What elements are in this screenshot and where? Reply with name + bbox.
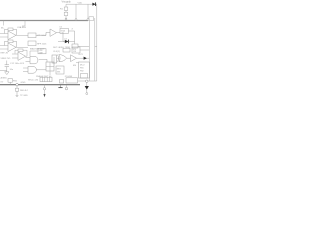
and gate G2 — [28, 66, 36, 73]
wire BR down — [86, 82, 88, 86]
wire cap to gnd — [6, 67, 8, 72]
connector J1 on rail right — [89, 17, 94, 21]
terminal block TB1 — [40, 77, 52, 81]
wire top distribution — [66, 3, 97, 5]
svg-text:R66 4k7: R66 4k7 — [20, 90, 29, 92]
sub box U6 — [81, 74, 88, 79]
wire G3 input — [57, 57, 59, 59]
svg-text:PB1: PB1 — [80, 67, 84, 69]
feedback wire U4 — [15, 50, 27, 56]
ground GND3 stem — [60, 85, 62, 87]
svg-text:REG: REG — [57, 68, 62, 70]
node circle below rail — [65, 87, 68, 90]
node stem below rail — [66, 85, 68, 87]
svg-text:3V3: 3V3 — [57, 71, 60, 73]
wire cap stem — [6, 61, 8, 65]
svg-text:HPF 2k26: HPF 2k26 — [37, 43, 47, 45]
block DIV — [72, 47, 80, 53]
wire arrow to bus — [87, 57, 89, 59]
terminator circle BR — [86, 93, 88, 95]
IC U6 — [79, 62, 90, 78]
mixer M1 — [46, 62, 54, 71]
op-amp U4 — [18, 52, 26, 60]
svg-text:U5: U5 — [60, 26, 62, 28]
block latch L1 — [52, 55, 57, 63]
wire input U2 non-inverting — [0, 48, 8, 50]
wire to diode D2 — [58, 41, 65, 43]
svg-text:C12 100n 6V3: C12 100n 6V3 — [10, 63, 25, 65]
wire A2 to bus — [78, 45, 89, 47]
arrow head signal — [84, 57, 87, 60]
wire U1 out — [16, 34, 28, 36]
wire drop B — [87, 4, 89, 18]
wire U4 inputs — [12, 53, 18, 55]
wire G1 out — [39, 59, 47, 62]
ground GND1 — [5, 72, 9, 75]
svg-text:REF_IN: REF_IN — [1, 53, 9, 55]
svg-text:EN: EN — [73, 65, 76, 67]
svg-text:16M: 16M — [39, 52, 43, 54]
wire to gnd arrow — [44, 90, 46, 94]
svg-text:OUT1: OUT1 — [78, 54, 83, 56]
wire G3 out — [67, 57, 71, 59]
wire right edge from diode — [96, 4, 98, 81]
svg-text:0V: 0V — [1, 82, 4, 84]
resistor R2 — [64, 12, 68, 15]
node circle B on rail — [87, 19, 89, 21]
wire input U2 inverting — [0, 45, 8, 47]
filter block F2 — [28, 41, 36, 46]
wire stub left — [0, 70, 7, 72]
wire R1 to R2 — [65, 10, 67, 12]
ground GND3 bar — [58, 87, 62, 89]
wire buffer to box — [57, 32, 61, 34]
capacitor C1 — [5, 64, 9, 66]
svg-text:10u: 10u — [10, 69, 14, 71]
wire stub from rail — [3, 21, 5, 26]
wire M1 down — [49, 71, 51, 75]
wire D2 out — [69, 41, 75, 43]
wire IC left — [76, 62, 79, 64]
diode D1 — [92, 3, 95, 6]
wire xtal left — [30, 51, 38, 56]
svg-text:VDD: VDD — [78, 2, 83, 4]
block A1 — [60, 28, 68, 33]
block REG — [56, 66, 64, 74]
bus line right outer — [88, 21, 90, 81]
node circle BR on wire — [86, 80, 89, 83]
resistor R4 feedback U2 — [8, 40, 13, 43]
feedback wire U2 — [5, 41, 17, 47]
svg-text:R1: R1 — [60, 9, 64, 11]
svg-text:GND: GND — [21, 82, 26, 84]
resistor R1 — [64, 7, 68, 10]
node circle A on rail — [75, 19, 77, 21]
svg-text:x10: x10 — [61, 32, 64, 34]
wire bottom right corner — [78, 80, 97, 82]
block XTAL — [38, 49, 46, 54]
ground arrow BR — [85, 86, 89, 90]
feedback wire U1 — [5, 29, 17, 35]
wire R2 to rail — [65, 16, 67, 19]
wire R6 down — [16, 91, 18, 95]
bus line right inner — [94, 18, 96, 81]
op-amp U1 — [8, 31, 16, 40]
wire input U1 inverting — [0, 33, 8, 35]
svg-text:FB1: FB1 — [13, 80, 18, 82]
wire F1 to buffer — [36, 32, 50, 35]
svg-text:Vsupply: Vsupply — [62, 0, 72, 4]
component K1 above rail — [8, 79, 12, 83]
wire G2 out — [36, 69, 46, 71]
wire G1 inputs — [26, 56, 31, 58]
xor gate G3 input arc — [57, 55, 58, 62]
small blocks above rail — [60, 80, 64, 83]
xor gate G3 — [59, 55, 67, 62]
node circle — [43, 88, 45, 90]
svg-text:AGND: AGND — [1, 76, 8, 79]
filter block F1 — [28, 33, 36, 38]
svg-text:TP GND: TP GND — [20, 95, 28, 97]
wire U5 out to arrow — [77, 57, 84, 59]
node N1 on rail — [16, 83, 19, 86]
buffer U5 — [71, 55, 77, 62]
op-amp U2 — [8, 43, 16, 52]
block small — [63, 48, 70, 52]
svg-text:U1A REF: U1A REF — [17, 26, 27, 29]
wire AMP to diode branch — [63, 33, 65, 41]
ground arrow GND2 — [43, 94, 45, 97]
node junction on rail — [65, 18, 67, 20]
tick on inner bus — [95, 45, 97, 47]
svg-text:SHLD_CM: SHLD_CM — [28, 79, 38, 81]
resistor R5 above U4 — [18, 49, 23, 51]
buffer U3 — [50, 29, 57, 36]
wire U2 out — [16, 46, 28, 48]
wire stem R1 top — [65, 4, 67, 7]
node N1 wire below — [16, 86, 18, 88]
svg-text:MCU: MCU — [80, 64, 85, 66]
power rail VCC top — [0, 20, 88, 22]
wire from tall box — [53, 57, 55, 64]
wire G2 inputs — [23, 67, 28, 69]
wire K1 to rail — [9, 82, 11, 85]
resistor R3 feedback U1 — [8, 28, 13, 31]
and gate G1 — [30, 56, 38, 63]
svg-text:X: X — [72, 28, 74, 30]
connector box — [66, 78, 78, 83]
wire stem BR — [86, 90, 88, 93]
svg-text:PB2: PB2 — [80, 70, 84, 72]
wire A1 out — [68, 31, 74, 44]
svg-text:VREF 2V5: VREF 2V5 — [1, 58, 12, 60]
block A2 — [72, 44, 78, 48]
wire drop A — [75, 4, 77, 19]
wire power stub — [22, 21, 25, 27]
terminator tick — [16, 94, 19, 96]
diode D2 — [65, 40, 69, 44]
wire DIV to bus — [80, 49, 89, 51]
svg-text:CLK(2): CLK(2) — [53, 51, 60, 53]
svg-text:D3: D3 — [65, 38, 67, 40]
ground rail bottom — [0, 84, 80, 86]
resistor R6 — [15, 88, 18, 91]
wire input U1 non-inverting — [0, 36, 8, 38]
svg-text:128: 128 — [73, 51, 76, 53]
wire below rail x44 — [44, 85, 46, 88]
